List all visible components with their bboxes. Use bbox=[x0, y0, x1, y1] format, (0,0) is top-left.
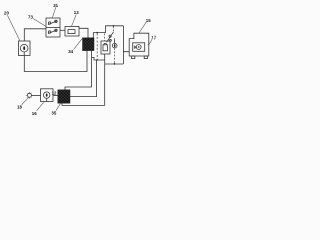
svg-text:12: 12 bbox=[52, 91, 57, 96]
svg-text:31: 31 bbox=[53, 3, 58, 8]
heater 34 (crosshatched box) bbox=[83, 38, 95, 51]
label 11 stroke b bbox=[154, 36, 155, 40]
switch contact circle lower bbox=[109, 39, 111, 41]
motor box 20 bbox=[19, 41, 31, 56]
box 13 with inner element bbox=[65, 27, 79, 37]
pointer 11 curve bbox=[148, 40, 152, 45]
junction dot A bbox=[96, 32, 98, 34]
machine foot left bbox=[132, 56, 135, 59]
label 35 bbox=[51, 110, 56, 115]
svg-text:18: 18 bbox=[17, 105, 22, 110]
label 17 bbox=[52, 91, 57, 96]
svg-text:20: 20 bbox=[4, 11, 9, 16]
dashed link down from node A bbox=[96, 33, 98, 60]
bottom outer loop wire bbox=[62, 103, 105, 105]
switch contact circle upper bbox=[109, 35, 111, 37]
leader for 35 bbox=[56, 104, 60, 111]
leader for 15 bbox=[139, 22, 147, 33]
bottom cell contacts bbox=[48, 29, 58, 33]
top bus wire bbox=[106, 26, 124, 33]
label 34 bbox=[68, 49, 73, 54]
node wire row 1 bbox=[92, 57, 105, 60]
label 16 bbox=[32, 111, 37, 116]
node wire row 2 bbox=[105, 63, 124, 65]
junction dot B bbox=[113, 25, 115, 27]
switch box U (31/73) bbox=[46, 18, 60, 37]
label 13 bbox=[74, 10, 79, 15]
leader for 16 bbox=[37, 101, 45, 110]
svg-text:34: 34 bbox=[68, 49, 73, 54]
coil circle bbox=[112, 38, 117, 47]
leader for 34 bbox=[74, 38, 83, 49]
long right drop wire bbox=[104, 54, 106, 105]
dashed stub from dot B to contact bbox=[112, 27, 114, 32]
label 20 bbox=[4, 11, 9, 16]
return wire heater to motor bbox=[24, 51, 87, 72]
leader for 13 bbox=[72, 15, 77, 27]
label 31 bbox=[53, 3, 58, 8]
machine foot right bbox=[144, 56, 147, 59]
label 15 bbox=[146, 18, 151, 23]
leader for 73 bbox=[33, 19, 46, 27]
wire box13 to heater 34 bbox=[79, 28, 88, 38]
wire lamp to box 16 bbox=[31, 94, 40, 96]
wire motor top to switch box bbox=[24, 29, 46, 41]
junction dot D bbox=[96, 59, 98, 61]
box 16 motor bbox=[41, 89, 54, 102]
switch blade bbox=[107, 32, 114, 42]
wire bus lower leg bbox=[122, 52, 124, 64]
label 73 bbox=[28, 15, 33, 20]
wire box16 to relay 35 bbox=[53, 95, 58, 97]
svg-text:73: 73 bbox=[28, 15, 33, 20]
svg-text:35: 35 bbox=[51, 110, 56, 115]
junction dot C bbox=[114, 63, 116, 65]
top cell contacts bbox=[48, 20, 58, 24]
wire heater top right to node bbox=[93, 33, 105, 38]
dashed link coil to lower node bbox=[114, 48, 116, 64]
leader for 18 bbox=[22, 97, 29, 104]
lamp 18 bbox=[26, 92, 33, 99]
svg-text:16: 16 bbox=[32, 111, 37, 116]
svg-text:13: 13 bbox=[74, 10, 79, 15]
leader for 20 bbox=[7, 15, 19, 40]
dashed through box 14 top bbox=[104, 33, 106, 41]
label 18 bbox=[17, 105, 22, 110]
wire node D to relay 35 right bbox=[70, 60, 97, 97]
wire switch box to box 13 bbox=[60, 29, 65, 31]
wire bus to machine bbox=[123, 26, 129, 52]
wire heater to relay 35 top bbox=[65, 51, 92, 90]
relay 35 (crosshatched box) bbox=[58, 90, 70, 103]
label 11 stroke a bbox=[152, 36, 153, 40]
leader for 31 bbox=[52, 7, 56, 17]
machine 15 body bbox=[129, 33, 149, 56]
box 14 with canister bbox=[101, 41, 110, 54]
